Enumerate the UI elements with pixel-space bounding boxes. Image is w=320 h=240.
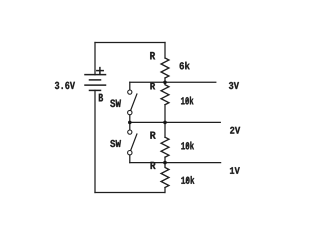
wire R3 bottom stub to 1V node xyxy=(164,157,166,162)
node junction dot 2V resistor chain xyxy=(163,121,167,125)
switch SW1 bottom stub to 2V wire xyxy=(129,115,131,123)
wire R4 bottom stub to bottom wire xyxy=(164,188,166,193)
wire 2V tap xyxy=(130,121,221,123)
switch SW1 bottom contact circle xyxy=(128,110,132,114)
wire bottom return to resistor chain xyxy=(95,192,165,194)
switch SW2 arm xyxy=(131,134,137,150)
label 3V output xyxy=(229,82,239,89)
label 10k value R3 xyxy=(181,142,194,150)
label R resistor R1 xyxy=(150,52,155,59)
wire left rail lower (battery - lead down to bottom wire) xyxy=(94,90,96,192)
label 2V output xyxy=(230,127,240,134)
wire R3 top stub xyxy=(164,122,166,137)
label R resistor R3 xyxy=(150,132,155,139)
node junction dot switches at 2V xyxy=(128,121,132,125)
label 6k value R1 xyxy=(180,62,190,70)
resistor R1 6k zigzag xyxy=(161,58,169,78)
slashed zero mark in R2 10k xyxy=(186,98,189,103)
slashed zero mark in R3 10k xyxy=(186,143,189,148)
battery positive terminal + sign xyxy=(97,68,103,74)
label 1V output xyxy=(230,167,240,174)
label 3.6V battery voltage xyxy=(55,82,75,89)
slashed zero mark in R4 10k xyxy=(186,178,189,183)
label SW switch 2 xyxy=(110,140,121,147)
node junction dot 3V xyxy=(163,81,167,85)
label 10k value R2 xyxy=(181,97,193,105)
switch SW1 arm xyxy=(131,94,137,110)
node junction dot 1V resistor chain xyxy=(163,161,167,165)
switch SW1 top stub from 3V wire xyxy=(129,82,131,90)
resistor R2 10k zigzag xyxy=(161,82,169,104)
wire 1V tap xyxy=(130,162,221,164)
switch SW1 top contact circle xyxy=(128,90,132,94)
label R resistor R4 xyxy=(151,162,156,169)
switch SW2 bottom stub to 1V wire xyxy=(129,155,131,163)
switch SW2 top stub from 2V wire xyxy=(129,122,131,129)
label SW switch 1 xyxy=(110,99,121,107)
wire top from battery + to resistor chain xyxy=(95,42,165,44)
wire 3V tap xyxy=(130,81,216,83)
switch SW2 top contact circle xyxy=(128,130,132,134)
resistor R3 10k zigzag xyxy=(161,137,169,157)
wire left rail upper (battery + lead) xyxy=(94,43,96,75)
resistor R4 10k zigzag xyxy=(161,163,169,188)
label R resistor R2 xyxy=(150,83,155,90)
switch SW2 bottom contact circle xyxy=(128,151,132,155)
battery B plates xyxy=(85,75,106,91)
wire resistor chain top stub xyxy=(164,43,166,59)
label 10k value R4 xyxy=(181,176,194,184)
label B battery designator xyxy=(99,94,103,102)
wire R1 bottom stub to 3V node xyxy=(164,78,166,82)
wire R2 bottom stub to 2V node xyxy=(164,105,166,123)
